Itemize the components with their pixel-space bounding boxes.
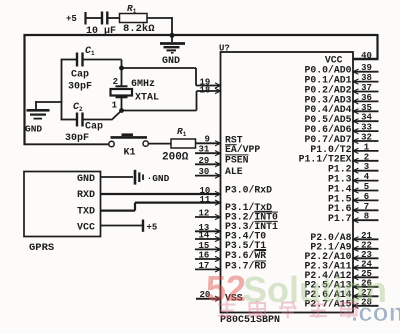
pin 29 stub [195, 156, 221, 167]
pin 20 wire VSS [196, 290, 221, 301]
pin 9 wire RST [196, 135, 221, 146]
label P3.2/INT0 [225, 212, 278, 223]
pin 19 wire XTAL1 [196, 78, 221, 89]
watermark chinese pink (pseudo-glyph strokes) [218, 301, 357, 319]
label P1.0/T2 [310, 144, 351, 155]
wire C1 left / loop vertical [61, 60, 63, 121]
capacitor 10uF [86, 12, 116, 38]
label P1.3 [328, 174, 352, 185]
svg-text:RXD: RXD [77, 190, 95, 201]
watermark 52 (red) [206, 268, 246, 309]
pin 21 stub [353, 231, 379, 242]
resistor R2 200 ohm [162, 126, 196, 164]
label P2.5/A13 [304, 280, 351, 291]
svg-text:18: 18 [200, 85, 211, 95]
pin 8 stub [353, 212, 379, 223]
label VSS [225, 293, 243, 304]
svg-text:P3.6/WR: P3.6/WR [225, 250, 266, 261]
node A junction dot [119, 66, 124, 71]
pin 30 stub [195, 167, 221, 178]
label P1.1/T2EX [299, 154, 352, 165]
svg-text:30pF: 30pF [68, 82, 92, 93]
pin 35 stub [353, 103, 379, 114]
wire node B to XTAL2 [122, 91, 197, 111]
svg-text:ALE: ALE [225, 166, 243, 177]
svg-text:31: 31 [199, 145, 210, 155]
pin 31 stub [195, 145, 221, 156]
label P2.3/A11 [304, 261, 351, 272]
pin 22 stub [353, 240, 379, 251]
svg-text:PSEN: PSEN [225, 154, 249, 165]
wire GPRS TXD to pin 11 [101, 203, 221, 211]
pin 5 stub [353, 182, 379, 193]
svg-text:36: 36 [361, 93, 372, 103]
svg-text:VCC: VCC [77, 223, 95, 234]
GPRS pin GND label [77, 174, 95, 185]
pin 36 stub [353, 93, 379, 104]
wire C2 to node B [83, 111, 122, 120]
GPRS module box [24, 172, 101, 255]
pin 4 stub [353, 172, 379, 183]
svg-text:29: 29 [199, 156, 210, 166]
op-amp: N/A ; MCU U1 P80C51SBPN box [221, 52, 354, 313]
svg-text:GND: GND [77, 174, 95, 185]
svg-text:GPRS: GPRS [29, 242, 54, 254]
wire GPRS RXD to pin 10 [101, 193, 221, 195]
svg-text:12: 12 [199, 209, 210, 219]
wire node A to XTAL1 [122, 68, 197, 86]
svg-text:30pF: 30pF [65, 133, 89, 144]
label P2.7/A15 [304, 299, 351, 310]
svg-text:15: 15 [199, 241, 210, 251]
svg-text:21: 21 [361, 231, 372, 241]
pin 17 stub [195, 261, 221, 272]
wire GPRS GND [101, 176, 134, 178]
pin 18 wire XTAL2 [197, 85, 221, 95]
label P0.1/AD1 [304, 75, 351, 86]
svg-text:U?: U? [219, 44, 230, 54]
label P2.2/A10 [304, 251, 351, 262]
pin 11 arrow [200, 195, 221, 205]
wire GPRS VCC [101, 225, 143, 227]
svg-text:11: 11 [200, 195, 211, 205]
svg-text:+5: +5 [66, 14, 77, 24]
label P1.6 [328, 203, 352, 214]
pin 39 stub [353, 63, 379, 74]
label P3.5/T1 [225, 240, 266, 251]
pin 12 stub [195, 209, 221, 220]
pushbutton K1 [109, 135, 149, 159]
svg-text:5: 5 [364, 182, 369, 192]
wire capacitor to resistor R1 [107, 17, 119, 19]
pin 15 stub [195, 241, 221, 252]
label P1.5 [328, 193, 352, 204]
label P3.6/WR [225, 250, 266, 261]
pin 34 stub [353, 113, 379, 124]
label P0.0/AD0 [304, 65, 351, 76]
svg-text:30: 30 [199, 167, 210, 177]
label P0.3/AD3 [304, 94, 351, 105]
power terminal +5 (reset RC) [66, 12, 86, 25]
watermark .com (blue) [351, 297, 400, 327]
svg-text:1: 1 [112, 101, 118, 111]
svg-text:34: 34 [361, 113, 372, 123]
pin 38 stub [353, 73, 379, 84]
svg-text:24: 24 [361, 259, 372, 269]
pin 37 stub [353, 83, 379, 94]
MCU designator U? [219, 44, 230, 54]
svg-text:P3.0/RxD: P3.0/RxD [225, 185, 272, 196]
pin 28 stub [353, 297, 379, 308]
svg-text:K1: K1 [124, 148, 136, 159]
ground (oscillator) [25, 101, 62, 135]
pin 7 stub [353, 202, 379, 213]
label P1.7 [328, 213, 352, 224]
label PSEN [225, 154, 249, 165]
pin 3 stub [353, 162, 379, 173]
capacitor C1 30pF [61, 46, 95, 93]
capacitor C2 30pF [61, 102, 103, 144]
svg-text:·GND: ·GND [147, 173, 170, 184]
pin 6 stub [353, 192, 379, 203]
label P0.2/AD2 [304, 84, 351, 95]
svg-text:22: 22 [361, 240, 372, 250]
wire VCC rail drop to pin 40 [353, 34, 379, 59]
pin 16 stub [195, 251, 221, 262]
label ALE [225, 166, 243, 177]
svg-text:200Ω: 200Ω [162, 152, 189, 164]
svg-text:2: 2 [364, 152, 369, 162]
label VCC [325, 55, 343, 66]
svg-text:39: 39 [361, 63, 372, 73]
svg-text:8.2kΩ: 8.2kΩ [123, 23, 155, 35]
label P1.4 [328, 183, 352, 194]
pin 2 stub [353, 152, 379, 163]
wire VCC rail top [24, 34, 378, 36]
wire C1 to XTAL node A [83, 60, 122, 69]
svg-text:38: 38 [361, 73, 372, 83]
ground (reset RC) [160, 44, 185, 68]
label P2.1/A9 [310, 242, 351, 253]
label EA/VPP [225, 144, 260, 155]
svg-text:GND: GND [162, 56, 180, 67]
svg-text:16: 16 [199, 251, 210, 261]
svg-text:TXD: TXD [77, 207, 95, 218]
pin 1 stub [353, 142, 379, 153]
wire K1 to R2 [148, 143, 171, 145]
svg-text:GND: GND [25, 124, 42, 135]
label P3.3/INT1 [225, 221, 278, 232]
label P1.2 [328, 164, 352, 175]
crystal Y1 6MHz XTAL [111, 68, 160, 111]
label P3.4/T0 [225, 230, 266, 241]
label P0.6/AD6 [304, 124, 351, 135]
label P2.0/A8 [310, 232, 351, 243]
svg-text:8: 8 [364, 212, 369, 222]
wire +5 to capacitor [86, 17, 102, 19]
power terminal +5 (GPRS) [143, 220, 157, 233]
svg-text:4: 4 [364, 172, 370, 182]
svg-text:+5: +5 [147, 223, 158, 233]
svg-text:2: 2 [113, 77, 118, 87]
svg-text:7: 7 [364, 202, 369, 212]
svg-text:9: 9 [205, 135, 210, 145]
pin 23 stub [353, 250, 379, 261]
label P2.6/A14 [304, 289, 351, 300]
ground (GPRS) [135, 170, 170, 185]
label P2.4/A12 [304, 270, 351, 281]
svg-text:XTAL: XTAL [135, 93, 159, 104]
wire VCC rail left vertical [23, 34, 25, 145]
pin 26 stub [353, 278, 379, 289]
label P3.0/RxD [225, 185, 272, 196]
pin 25 stub [353, 269, 379, 280]
svg-text:14: 14 [199, 231, 210, 241]
label P3.7/RD [225, 261, 266, 272]
pin 24 stub [353, 259, 379, 270]
label P0.4/AD4 [304, 104, 351, 115]
pin 13 stub [195, 223, 221, 234]
svg-text:35: 35 [361, 103, 372, 113]
GPRS pin TXD label [77, 207, 95, 218]
svg-text:Cap: Cap [71, 70, 89, 81]
pin 40 number [361, 51, 372, 61]
svg-text:Cap: Cap [85, 122, 103, 133]
label RST [225, 134, 243, 145]
node B junction dot [119, 108, 124, 113]
svg-text:32: 32 [361, 133, 372, 143]
svg-text:.com: .com [351, 297, 400, 327]
wire rail to K1 [25, 143, 109, 145]
wire R1 to GND drop [147, 17, 172, 42]
svg-text:23: 23 [361, 250, 372, 260]
GPRS pin VCC label [77, 223, 95, 234]
svg-text:1: 1 [364, 142, 370, 152]
junction rail/ground drop [170, 33, 175, 38]
label P0.7/AD7 [304, 134, 351, 145]
svg-text:6MHz: 6MHz [131, 79, 155, 90]
svg-text:37: 37 [361, 83, 372, 93]
pin 32 stub [353, 133, 379, 144]
svg-text:40: 40 [361, 51, 372, 61]
label P3.1/TxD [225, 202, 272, 213]
pin 33 stub [353, 123, 379, 134]
svg-text:P1.7: P1.7 [328, 213, 352, 224]
svg-text:33: 33 [361, 123, 372, 133]
svg-text:3: 3 [364, 162, 369, 172]
svg-text:6: 6 [364, 192, 369, 202]
pin 10 arrow [200, 186, 221, 197]
MCU part number P80C51SBPN [220, 315, 280, 326]
watermark Solution (green) [243, 269, 387, 310]
resistor R1 8.2k [120, 3, 156, 35]
label P0.5/AD5 [304, 114, 351, 125]
pin 27 stub [353, 288, 379, 299]
pin 14 stub [195, 231, 221, 242]
GPRS pin RXD label [77, 190, 95, 201]
